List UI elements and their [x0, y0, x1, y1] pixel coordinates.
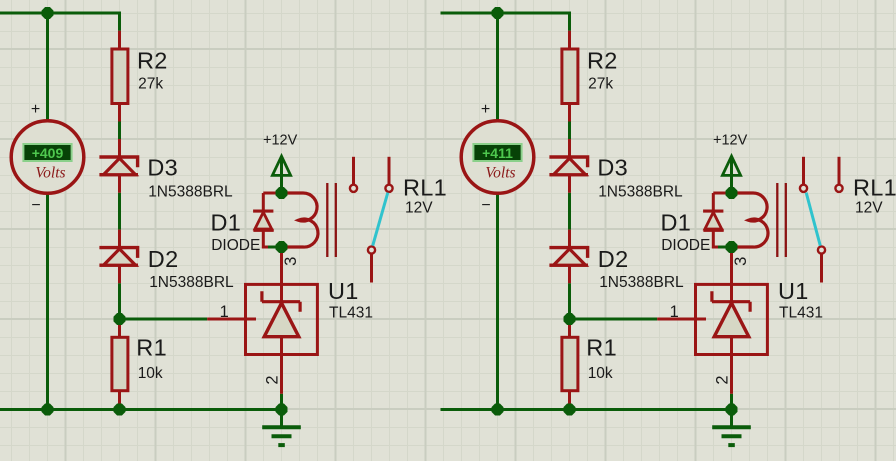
svg-text:+411: +411: [482, 145, 513, 161]
svg-text:+409: +409: [32, 145, 64, 161]
